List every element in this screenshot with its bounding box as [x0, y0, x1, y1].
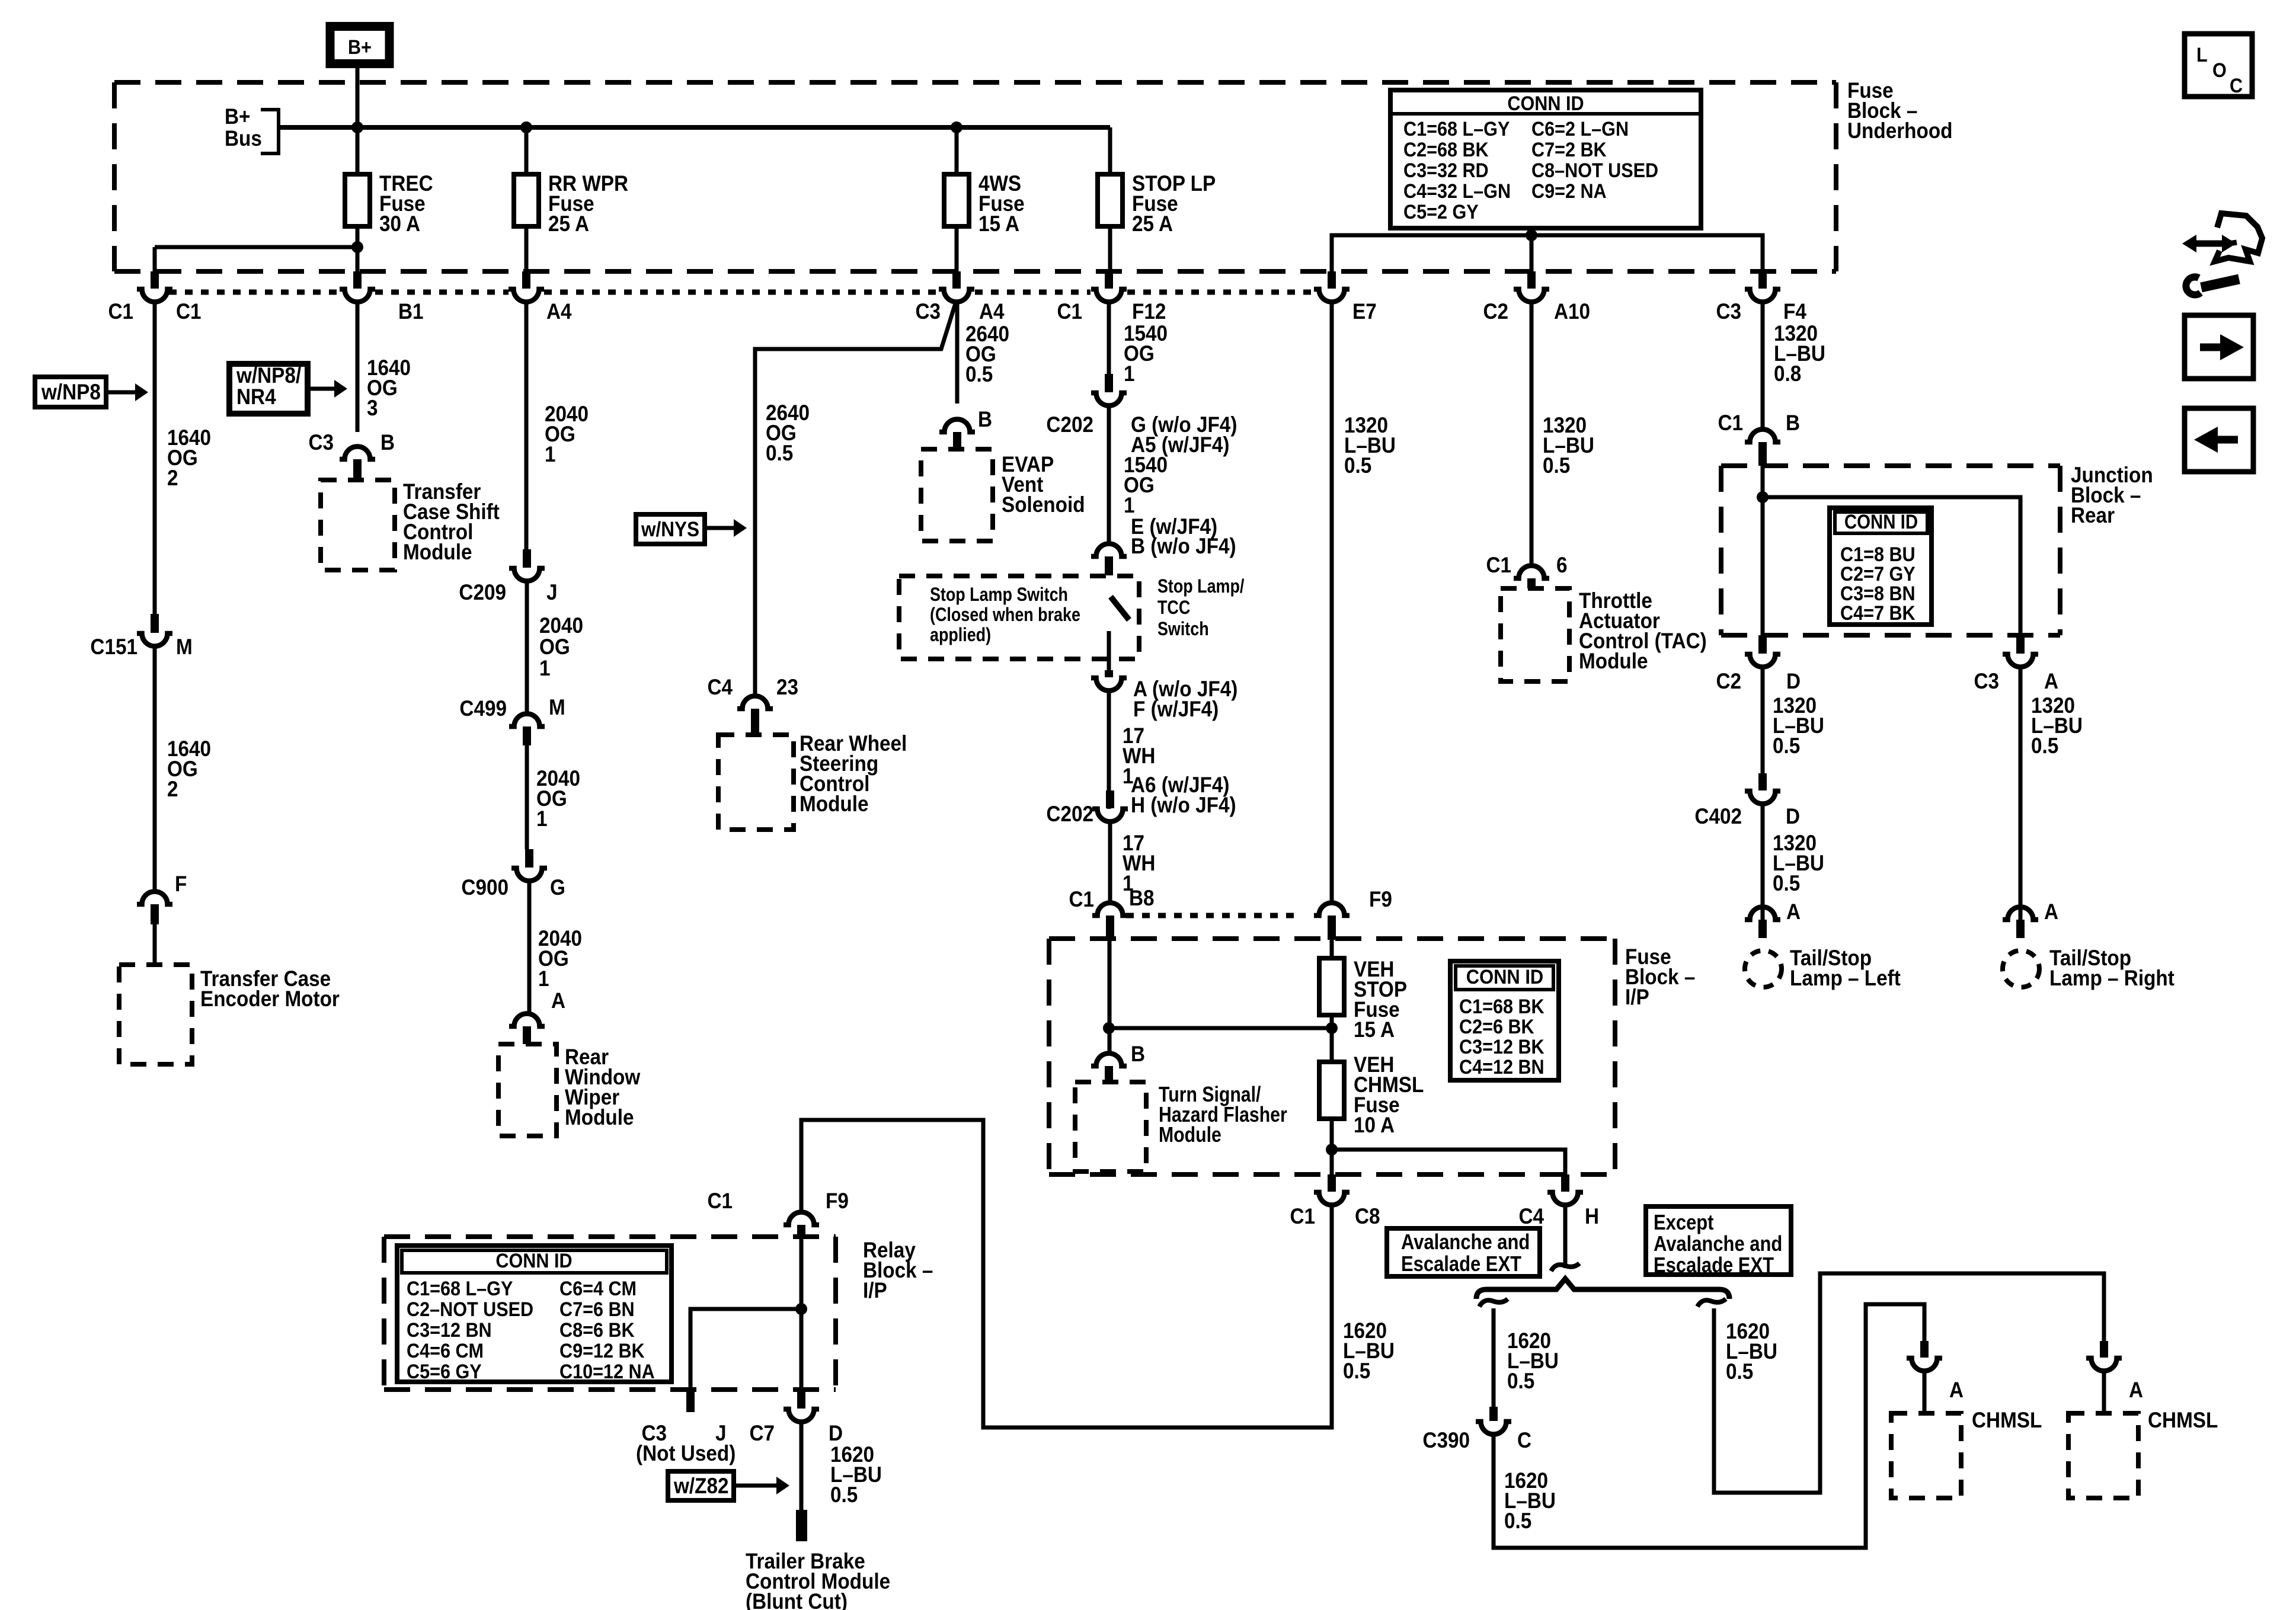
svg-text:C6=4 CM: C6=4 CM [559, 1278, 637, 1300]
svg-text:25 A: 25 A [548, 212, 589, 236]
svg-text:0.5: 0.5 [1773, 871, 1800, 895]
svg-text:(Blunt Cut): (Blunt Cut) [746, 1589, 848, 1610]
svg-text:(Closed when brake: (Closed when brake [930, 604, 1080, 626]
svg-text:Lamp – Right: Lamp – Right [2049, 966, 2175, 990]
svg-text:Module: Module [800, 792, 868, 816]
svg-text:D: D [1786, 669, 1801, 693]
svg-text:B+: B+ [225, 104, 250, 129]
svg-text:2: 2 [167, 777, 178, 801]
svg-text:CHMSL: CHMSL [2148, 1408, 2218, 1432]
svg-text:F9: F9 [826, 1189, 849, 1213]
svg-text:2: 2 [167, 466, 178, 490]
svg-text:C1: C1 [707, 1189, 733, 1213]
svg-text:B: B [1131, 1042, 1145, 1066]
svg-text:A: A [2129, 1378, 2143, 1402]
svg-text:C1=68 L–GY: C1=68 L–GY [407, 1278, 513, 1300]
svg-text:Stop Lamp Switch: Stop Lamp Switch [930, 584, 1068, 606]
svg-text:CONN ID: CONN ID [1844, 511, 1918, 533]
svg-text:C3: C3 [915, 299, 941, 324]
svg-text:C209: C209 [459, 580, 506, 604]
svg-text:Stop Lamp/: Stop Lamp/ [1157, 576, 1244, 597]
svg-text:Bus: Bus [225, 126, 262, 151]
svg-text:CONN ID: CONN ID [495, 1250, 572, 1272]
svg-text:C1: C1 [1069, 887, 1094, 911]
svg-text:1: 1 [536, 806, 548, 831]
svg-text:1: 1 [1124, 361, 1135, 386]
svg-text:C4: C4 [707, 675, 733, 699]
svg-text:Escalade EXT: Escalade EXT [1401, 1253, 1521, 1276]
svg-text:C3=12 BN: C3=12 BN [407, 1319, 492, 1342]
svg-text:G: G [550, 875, 565, 900]
svg-text:Module: Module [403, 540, 472, 564]
svg-text:Lamp – Left: Lamp – Left [1790, 966, 1901, 990]
svg-text:C1=68 BK: C1=68 BK [1459, 996, 1544, 1018]
svg-text:A: A [1949, 1378, 1964, 1402]
svg-text:C1: C1 [1290, 1204, 1315, 1228]
svg-text:Underhood: Underhood [1847, 119, 1953, 143]
svg-text:15 A: 15 A [1354, 1017, 1395, 1042]
svg-text:23: 23 [776, 675, 798, 699]
svg-text:C3=32 RD: C3=32 RD [1403, 159, 1489, 182]
svg-text:H (w/o JF4): H (w/o JF4) [1131, 793, 1236, 817]
svg-text:C4=6 CM: C4=6 CM [407, 1340, 484, 1362]
svg-text:C7: C7 [749, 1421, 775, 1445]
svg-text:Avalanche and: Avalanche and [1654, 1233, 1782, 1256]
svg-text:CONN ID: CONN ID [1507, 92, 1584, 115]
svg-text:Escalade EXT: Escalade EXT [1654, 1254, 1774, 1278]
svg-text:0.5: 0.5 [1543, 453, 1570, 478]
svg-text:C5=2 GY: C5=2 GY [1403, 201, 1479, 223]
svg-text:C4: C4 [1518, 1204, 1544, 1228]
svg-text:0.5: 0.5 [1507, 1369, 1534, 1393]
svg-text:B (w/o JF4): B (w/o JF4) [1131, 534, 1236, 558]
svg-text:C2=68 BK: C2=68 BK [1403, 139, 1489, 161]
svg-text:C: C [1517, 1428, 1531, 1452]
svg-text:C4=32 L–GN: C4=32 L–GN [1403, 180, 1511, 203]
svg-text:B: B [1786, 411, 1800, 435]
svg-text:0.5: 0.5 [1343, 1359, 1370, 1383]
svg-text:Avalanche and: Avalanche and [1401, 1231, 1530, 1254]
svg-text:C499: C499 [459, 696, 507, 721]
svg-text:C7=2 BK: C7=2 BK [1531, 139, 1607, 161]
svg-text:F: F [175, 872, 187, 896]
svg-text:C: C [2230, 75, 2243, 97]
svg-text:CHMSL: CHMSL [1972, 1408, 2042, 1432]
svg-text:0.8: 0.8 [1774, 361, 1801, 386]
svg-text:C151: C151 [90, 635, 137, 659]
svg-text:C9=12 BK: C9=12 BK [559, 1340, 645, 1362]
svg-text:C1=68 L–GY: C1=68 L–GY [1403, 118, 1510, 140]
svg-text:M: M [176, 635, 193, 659]
svg-text:I/P: I/P [863, 1278, 887, 1302]
svg-text:C2: C2 [1483, 299, 1508, 324]
svg-text:TCC: TCC [1157, 597, 1190, 619]
svg-text:B+: B+ [348, 36, 372, 59]
svg-text:C10=12 NA: C10=12 NA [559, 1361, 655, 1383]
svg-text:B8: B8 [1129, 886, 1155, 910]
svg-text:C7=6 BN: C7=6 BN [559, 1298, 635, 1321]
svg-text:1: 1 [1124, 493, 1135, 517]
svg-text:w/NYS: w/NYS [641, 518, 699, 542]
svg-text:Encoder Motor: Encoder Motor [200, 987, 340, 1011]
svg-text:H: H [1585, 1204, 1599, 1228]
svg-text:C2–NOT USED: C2–NOT USED [407, 1298, 533, 1321]
svg-text:C900: C900 [461, 875, 509, 900]
svg-text:C4=12 BN: C4=12 BN [1459, 1056, 1544, 1078]
svg-text:0.5: 0.5 [830, 1483, 858, 1507]
svg-text:F (w/JF4): F (w/JF4) [1133, 697, 1219, 721]
svg-text:25 A: 25 A [1132, 212, 1173, 236]
svg-text:C3=12 BK: C3=12 BK [1459, 1036, 1544, 1058]
svg-text:0.5: 0.5 [1344, 453, 1371, 478]
svg-text:O: O [2212, 59, 2227, 82]
svg-text:M: M [549, 695, 565, 719]
svg-text:C6=2 L–GN: C6=2 L–GN [1531, 118, 1629, 140]
svg-text:0.5: 0.5 [766, 441, 793, 465]
svg-text:C8: C8 [1355, 1204, 1380, 1228]
svg-text:C8–NOT USED: C8–NOT USED [1531, 159, 1658, 182]
svg-text:E7: E7 [1352, 299, 1377, 324]
svg-text:w/NP8: w/NP8 [41, 380, 101, 404]
svg-text:3: 3 [367, 396, 378, 420]
svg-text:A: A [2044, 900, 2058, 924]
svg-text:A10: A10 [1554, 299, 1590, 324]
svg-text:C9=2 NA: C9=2 NA [1531, 180, 1607, 203]
svg-text:F12: F12 [1132, 299, 1166, 324]
svg-text:NR4: NR4 [236, 385, 276, 409]
svg-text:OG: OG [539, 635, 570, 659]
svg-text:B: B [978, 407, 992, 431]
svg-text:I/P: I/P [1625, 985, 1649, 1009]
svg-text:Rear: Rear [2071, 503, 2115, 527]
svg-text:Module: Module [565, 1105, 634, 1129]
svg-text:C4=7 BK: C4=7 BK [1840, 602, 1916, 625]
svg-text:C1: C1 [1486, 553, 1511, 577]
svg-text:C8=6 BK: C8=6 BK [559, 1319, 635, 1342]
svg-text:C1: C1 [176, 299, 202, 324]
svg-text:Solenoid: Solenoid [1002, 492, 1085, 517]
svg-text:Module: Module [1159, 1124, 1221, 1147]
svg-text:30 A: 30 A [379, 212, 420, 236]
svg-text:w/Z82: w/Z82 [673, 1474, 728, 1498]
svg-text:C1: C1 [1718, 411, 1743, 435]
svg-text:A: A [551, 988, 565, 1013]
svg-text:0.5: 0.5 [1726, 1359, 1753, 1384]
svg-text:Module: Module [1579, 649, 1648, 673]
svg-text:(Not Used): (Not Used) [636, 1441, 736, 1465]
svg-text:C1: C1 [1057, 299, 1082, 324]
svg-text:C402: C402 [1694, 804, 1742, 828]
svg-text:1: 1 [538, 966, 549, 991]
svg-text:C3: C3 [308, 430, 334, 454]
svg-text:A: A [1786, 900, 1801, 924]
svg-text:CONN ID: CONN ID [1466, 966, 1544, 988]
svg-text:1: 1 [539, 656, 551, 680]
svg-text:D: D [1786, 804, 1800, 828]
svg-text:10 A: 10 A [1354, 1113, 1395, 1137]
svg-text:C2=6 BK: C2=6 BK [1459, 1016, 1534, 1038]
svg-text:C2: C2 [1716, 669, 1741, 693]
svg-text:0.5: 0.5 [1773, 734, 1800, 758]
svg-text:2040: 2040 [539, 613, 583, 638]
svg-text:D: D [829, 1421, 843, 1445]
svg-text:C202: C202 [1046, 802, 1093, 826]
svg-text:A4: A4 [979, 299, 1005, 324]
svg-text:C1: C1 [108, 299, 133, 324]
svg-text:C202: C202 [1046, 412, 1093, 437]
svg-text:Switch: Switch [1157, 619, 1209, 640]
svg-text:w/NP8/: w/NP8/ [236, 363, 301, 388]
svg-text:J: J [546, 580, 558, 604]
svg-text:0.5: 0.5 [1504, 1509, 1531, 1533]
svg-text:15 A: 15 A [978, 212, 1019, 236]
svg-text:L: L [2196, 44, 2208, 66]
svg-text:C390: C390 [1422, 1428, 1470, 1452]
svg-text:B1: B1 [398, 299, 424, 324]
svg-text:C5=6 GY: C5=6 GY [407, 1361, 482, 1383]
svg-text:applied): applied) [930, 625, 991, 646]
svg-text:C3: C3 [1974, 669, 1999, 693]
svg-text:Except: Except [1654, 1211, 1713, 1235]
svg-text:C3: C3 [1716, 299, 1741, 324]
svg-text:6: 6 [1556, 553, 1568, 577]
svg-text:0.5: 0.5 [965, 362, 993, 386]
svg-text:B: B [380, 430, 395, 454]
svg-text:1: 1 [545, 442, 556, 466]
svg-text:A4: A4 [546, 299, 572, 324]
svg-text:F9: F9 [1369, 887, 1392, 911]
svg-text:0.5: 0.5 [2031, 734, 2058, 758]
svg-text:A: A [2044, 669, 2058, 693]
svg-text:F4: F4 [1783, 299, 1806, 324]
